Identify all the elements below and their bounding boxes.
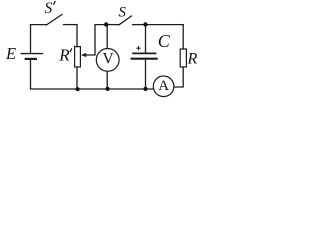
wire: down to R' top: [76, 25, 78, 47]
node: top voltmeter junction: [104, 22, 108, 26]
svg-text:S: S: [119, 4, 127, 20]
svg-text:V: V: [103, 50, 115, 67]
wire: voltmeter branch bottom: [106, 71, 108, 89]
wire: battery bottom to bottom-left corner and bottom run to ammeter: [31, 59, 154, 89]
wire: S right contact to capacitor node: [133, 24, 146, 26]
svg-text:E: E: [5, 44, 16, 63]
R' wiper arrowhead: [81, 53, 86, 57]
node: bottom capacitor junction: [143, 87, 147, 91]
prime mark of S': [54, 1, 56, 5]
junction dots: [76, 22, 148, 91]
wire: right vertical down to R top: [182, 25, 184, 49]
wire: S' right contact to R' corner: [64, 24, 78, 26]
wire: capacitor branch bottom: [145, 59, 147, 89]
battery E plates: [21, 54, 44, 59]
switch S' blade: [47, 15, 63, 25]
wire: R bottom down and left to ammeter: [174, 67, 183, 87]
wire: voltmeter branch top: [106, 25, 108, 49]
wiper arrow wire of R' (up to top wire): [85, 25, 106, 55]
prime mark of R': [70, 48, 72, 52]
svg-text:A: A: [158, 78, 169, 94]
wire: capacitor branch top: [145, 25, 147, 53]
wire: top-left horizontal to S' pivot: [31, 24, 47, 26]
capacitor C plates: [131, 53, 158, 58]
ammeter U2 circle: [153, 76, 174, 97]
svg-text:R: R: [187, 51, 198, 68]
resistor R' body: [75, 47, 81, 67]
switch S wire from node to pivot: [106, 24, 119, 26]
svg-text:C: C: [158, 31, 171, 51]
switch S blade: [119, 16, 131, 25]
node: bottom R' junction: [76, 87, 80, 91]
voltmeter U1 circle: [96, 49, 119, 72]
resistor R body: [180, 49, 186, 67]
node: bottom voltmeter junction: [106, 87, 110, 91]
svg-text:R: R: [58, 45, 70, 64]
wire: capacitor node to top-right corner: [146, 24, 184, 26]
wire: R' bottom to bottom wire: [76, 67, 78, 89]
svg-text:S: S: [45, 0, 53, 17]
label + (capacitor polarity): [136, 46, 140, 50]
wire: left vertical top (battery top to top-left corner): [30, 25, 32, 54]
node: top capacitor junction: [143, 22, 147, 26]
